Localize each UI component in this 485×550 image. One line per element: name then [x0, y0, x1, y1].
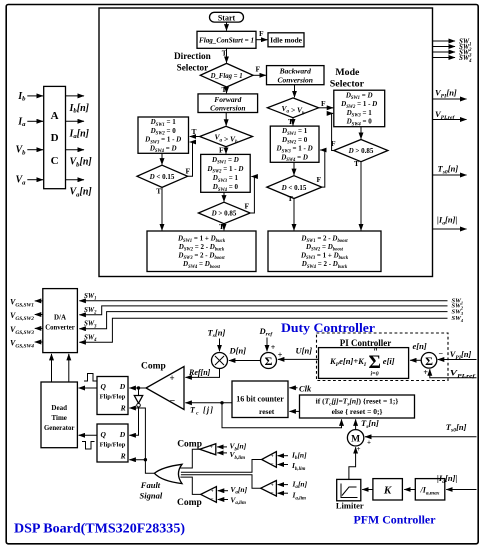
wire fw D>0.85->bottom box: [223, 224, 225, 231]
node comp output junction: [137, 386, 140, 389]
wire Ts -> if box: [355, 419, 357, 429]
svg-text:−: −: [211, 497, 214, 502]
svg-text:D_Flag = 1: D_Flag = 1: [210, 72, 243, 80]
inverter: [138, 388, 140, 396]
wire bw D>0.85 ->bottom box: [360, 162, 362, 231]
wire Ref[n]: [185, 369, 219, 377]
svg-text:F: F: [219, 145, 224, 154]
VGS,SW2 output wire: [35, 314, 43, 316]
svg-text:T: T: [288, 194, 293, 203]
fw D<0.15 diamond: [137, 165, 188, 187]
ADC output Va[n]: [66, 179, 85, 181]
wire /Iamax -> K: [404, 489, 415, 491]
dashed PI region: [317, 333, 449, 381]
svg-text:e[i]: e[i]: [383, 356, 395, 366]
svg-text:+: +: [210, 446, 213, 451]
ADC block: [44, 86, 66, 188]
svg-text:−: −: [271, 491, 274, 496]
svg-text:D > 0.85: D > 0.85: [211, 210, 237, 218]
ADC output Ia[n]: [66, 120, 85, 122]
wire modebox->D>0.85: [360, 127, 362, 139]
SW3 wire into D/A: [79, 312, 447, 329]
svg-text:T: T: [219, 222, 224, 231]
bw bottom box: [268, 231, 381, 272]
svg-text:reset: reset: [259, 407, 275, 416]
svg-text:F: F: [256, 65, 261, 74]
svg-text:D: D: [51, 132, 59, 144]
fw bottom box: [147, 231, 256, 272]
svg-text:F: F: [321, 99, 326, 108]
svg-text:Q: Q: [101, 382, 107, 391]
VGS,SW1 output wire: [35, 300, 43, 302]
wire fwdiamond->box1: [190, 136, 200, 138]
PI controller box: [319, 348, 409, 379]
svg-text:Ib[n]: Ib[n]: [69, 103, 90, 115]
wire Ts0[n] -> M: [365, 436, 477, 438]
dead time generator: [41, 382, 77, 448]
svg-text:Time: Time: [51, 414, 66, 422]
svg-text:Converter: Converter: [45, 324, 75, 332]
ADC input Vb: [27, 149, 43, 151]
wire bwdiamond->bwT box: [292, 118, 294, 126]
svg-text:+: +: [357, 445, 361, 453]
wire bw D<0.15 ->bottom box: [293, 199, 295, 231]
svg-text:PI Controller: PI Controller: [340, 338, 392, 348]
svg-text:Start: Start: [218, 13, 236, 22]
svg-text:+: +: [271, 343, 276, 352]
wire Ib comp -> OR: [181, 460, 262, 473]
fw D>0.85 diamond: [198, 202, 250, 224]
lower D flip-flop: [97, 424, 128, 462]
svg-text:Σ: Σ: [265, 354, 273, 368]
svg-text:i=0: i=0: [371, 372, 379, 378]
SW4 wire into D/A: [79, 318, 447, 342]
wire inverter -> lower FF D: [129, 407, 138, 435]
svg-text:Vb[n]: Vb[n]: [70, 157, 93, 169]
VGS,SW3 output wire: [35, 327, 43, 329]
M block: [347, 430, 363, 446]
flag_constart box: [197, 31, 256, 48]
wire VPI,ref -> sum2: [430, 369, 477, 378]
svg-text:e[n]: e[n]: [413, 341, 427, 351]
wire |Ia[n]| -> /Iamax: [446, 489, 476, 491]
svg-text:Q: Q: [101, 430, 107, 439]
SW2 output wire (top right): [433, 46, 455, 48]
wire DTG->D/A (right): [68, 354, 70, 382]
wire DTG->D/A (left): [51, 354, 53, 382]
wire forward->fw diamond: [225, 113, 227, 126]
bw T box: [270, 126, 319, 162]
wire if -> reset: [289, 410, 299, 412]
bw D>0.85 diamond: [334, 140, 388, 162]
wire K -> limiter: [362, 489, 373, 491]
pulse glyph upper: [84, 374, 97, 382]
svg-text:T: T: [156, 187, 161, 196]
svg-text:D[n]: D[n]: [229, 346, 247, 356]
svg-text:+: +: [423, 368, 428, 377]
svg-text:D: D: [119, 430, 126, 439]
wire fw D<0.15->bottom box: [161, 187, 163, 230]
pulse glyph lower: [82, 442, 95, 450]
wire flag->idle: [256, 39, 267, 41]
ADC input Va: [27, 179, 43, 181]
svg-text:T: T: [354, 159, 359, 168]
wire flag->dflag diamond: [226, 48, 228, 63]
svg-text:Va[n]: Va[n]: [70, 187, 93, 199]
svg-text:+: +: [367, 439, 371, 447]
bw Va>Vb diamond: [267, 98, 318, 118]
svg-text:Flip/Flop: Flip/Flop: [100, 442, 126, 449]
D_Flag diamond: [200, 63, 253, 87]
svg-text:+: +: [271, 483, 274, 488]
bw D<0.15 diamond: [267, 176, 322, 199]
svg-text:M: M: [351, 435, 360, 445]
wire Tc[j]: [185, 402, 231, 404]
wire Tc -> if box: [222, 403, 342, 428]
fw Va>Vb diamond: [200, 126, 253, 146]
svg-text:K: K: [383, 485, 392, 497]
bw D<0.15 F loop wire: [320, 150, 325, 187]
svg-text:+: +: [271, 455, 274, 460]
SW1 wire into D/A: [79, 300, 447, 302]
SW4 output wire (top right): [433, 57, 455, 59]
wire comp output -> upper FF D: [129, 387, 146, 389]
svg-text:Idle mode: Idle mode: [270, 36, 303, 45]
svg-text:16 bit counter: 16 bit counter: [236, 395, 284, 404]
/Ia,max box: [415, 479, 445, 500]
svg-text:U[n]: U[n]: [296, 346, 313, 356]
K box: [373, 479, 403, 500]
wire bwdiamond->mode box: [319, 107, 334, 109]
backward conversion box: [267, 66, 325, 85]
svg-text:Limiter: Limiter: [336, 501, 364, 511]
idle mode box: [268, 33, 304, 47]
wire start->flag: [226, 22, 228, 31]
wire Va comp -> OR: [180, 477, 200, 494]
svg-text:Clk: Clk: [299, 383, 312, 393]
OR gate fault signal: [154, 464, 182, 483]
svg-text:−: −: [170, 396, 176, 407]
svg-text:D/A: D/A: [54, 314, 66, 322]
svg-text:+: +: [278, 351, 283, 360]
node Tc junction: [220, 401, 223, 404]
ADC output Vb[n]: [66, 149, 85, 151]
fw D>0.85 F loop wire: [250, 177, 254, 214]
svg-text:+: +: [170, 373, 175, 383]
svg-text:D < 0.15: D < 0.15: [149, 173, 175, 181]
svg-text:F: F: [259, 29, 264, 38]
svg-text:Σ: Σ: [425, 354, 433, 368]
if box: [300, 395, 415, 418]
wire fault -> R inputs: [129, 408, 154, 473]
svg-text:Conversion: Conversion: [277, 76, 312, 85]
ADC input Ia: [27, 120, 43, 122]
fw box2: [201, 154, 251, 192]
D/A converter: [43, 289, 78, 353]
multiplier X: [212, 353, 228, 369]
wire dflag->forward: [226, 87, 228, 93]
limiter: [337, 479, 361, 500]
flowchart enclosure box: [99, 8, 433, 277]
svg-text:D: D: [119, 382, 126, 391]
svg-text:Backward: Backward: [279, 67, 312, 76]
svg-text:+: +: [211, 490, 214, 495]
wire backward->VaVb diamond: [294, 85, 296, 98]
svg-text:PFM Controller: PFM Controller: [354, 513, 437, 527]
SW3 output wire (top right): [433, 51, 455, 53]
wire sum2 -> PI (e[n]): [410, 359, 421, 361]
comp Ib: [262, 452, 277, 468]
16 bit counter: [232, 381, 288, 418]
svg-text:Comp: Comp: [141, 362, 166, 372]
wire dflag->backward: [253, 74, 266, 76]
wire limiter -> M: [349, 447, 356, 479]
summer 1: [261, 353, 277, 369]
svg-text:F: F: [186, 167, 191, 176]
svg-text:R: R: [120, 452, 126, 461]
svg-text:Conversion: Conversion: [210, 104, 245, 113]
svg-text:Flag_ConStart = 1: Flag_ConStart = 1: [199, 36, 254, 45]
wire Q upper -> DTG: [79, 387, 97, 389]
wire Q lower -> DTG: [79, 434, 97, 436]
svg-text:Ia[n]: Ia[n]: [69, 128, 90, 140]
svg-text:Mode: Mode: [335, 68, 359, 78]
svg-text:−: −: [439, 349, 444, 358]
wire VPI[n] -> sum2: [438, 359, 477, 361]
svg-text:C: C: [51, 155, 59, 167]
svg-text:Signal: Signal: [140, 490, 163, 500]
VGS,SW4 output wire: [35, 341, 43, 343]
upper D flip-flop: [97, 377, 128, 415]
comparator Comp: [146, 367, 184, 410]
svg-text:D < 0.15: D < 0.15: [281, 184, 307, 192]
svg-text:Ref[n]: Ref[n]: [188, 368, 211, 377]
fw box1: [138, 117, 189, 153]
SW1 output wire (top right): [433, 40, 455, 42]
wire box1->fw D<0.15: [161, 153, 163, 164]
svg-text:Selector: Selector: [330, 80, 365, 90]
fw D<0.15 F loop wire: [188, 142, 193, 176]
svg-text:Σ: Σ: [369, 352, 381, 373]
wire Vb comp -> OR: [180, 449, 199, 468]
forward conversion box: [198, 94, 258, 113]
svg-text:Forward: Forward: [214, 95, 241, 104]
wire fwdiamond->box2: [225, 147, 227, 154]
wire bwTbox->D<0.15: [293, 162, 295, 175]
wire sum1 -> X: [229, 360, 261, 362]
svg-text:F: F: [245, 202, 250, 211]
wire Ia comp -> OR: [181, 475, 261, 489]
svg-text:Fault: Fault: [140, 480, 161, 490]
SW2 wire into D/A: [79, 306, 447, 315]
mode selector box: [334, 90, 385, 127]
svg-text:Selector: Selector: [177, 63, 209, 73]
comp Ia: [261, 481, 277, 497]
svg-text:Generator: Generator: [44, 424, 75, 432]
svg-text:T: T: [192, 127, 197, 136]
svg-text:−: −: [210, 452, 213, 457]
start oval: [210, 12, 244, 22]
svg-text:Comp: Comp: [177, 439, 202, 449]
svg-text:DSP Board(TMS320F28335): DSP Board(TMS320F28335): [14, 521, 185, 536]
ADC input Ib: [27, 95, 43, 97]
svg-text:D > 0.85: D > 0.85: [348, 147, 374, 155]
ADC output Ib[n]: [66, 95, 85, 97]
svg-text:T: T: [288, 117, 293, 126]
svg-text:T: T: [222, 85, 227, 94]
Clk stub: [289, 387, 297, 389]
svg-text:Direction: Direction: [174, 52, 211, 62]
svg-text:else { reset = 0;}: else { reset = 0;}: [332, 407, 383, 416]
svg-text:A: A: [51, 110, 59, 122]
svg-text:Flip/Flop: Flip/Flop: [100, 393, 126, 400]
svg-text:F: F: [317, 175, 322, 184]
wire box2->fw D>0.85: [223, 192, 225, 201]
svg-text:−: −: [271, 462, 274, 467]
bw D>0.85 F loop wire: [332, 113, 334, 150]
wire PI -> sum1 (U[n]): [278, 358, 319, 360]
svg-text:Comp: Comp: [177, 498, 202, 508]
svg-text:Dead: Dead: [51, 404, 67, 412]
svg-text:R: R: [120, 404, 126, 413]
summer 2: [421, 353, 437, 369]
